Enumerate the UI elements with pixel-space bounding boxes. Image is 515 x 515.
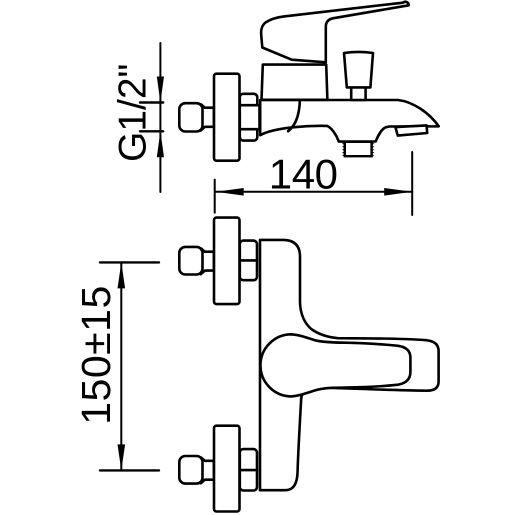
inner body/spout curve xyxy=(288,100,300,131)
nut upper (plan) xyxy=(240,241,257,281)
tick upper xyxy=(140,101,163,103)
neck upper (plan) xyxy=(201,248,214,274)
arrow right xyxy=(384,188,412,196)
thread teeth right xyxy=(371,142,375,156)
flange lower (plan) xyxy=(214,426,240,512)
diverter knob stem xyxy=(351,86,365,100)
wall connector neck (side view) xyxy=(201,104,214,130)
escutcheon flange (side view) xyxy=(214,74,240,161)
svg-text:140: 140 xyxy=(269,150,338,197)
eccentric lower (plan) xyxy=(179,456,202,484)
extension line left xyxy=(214,180,216,213)
lever handle (side view) xyxy=(261,2,409,62)
diverter knob xyxy=(344,52,373,88)
spout aerator box xyxy=(395,125,427,135)
lever handle (plan view) xyxy=(260,334,410,396)
tick lower xyxy=(140,130,163,132)
arrow down xyxy=(157,77,164,103)
eccentric connector (side view) xyxy=(179,103,202,131)
shower hose thread connector xyxy=(345,142,372,156)
dimension line 150 xyxy=(120,262,122,470)
thread teeth left xyxy=(342,142,346,156)
dimension line G1/2 xyxy=(159,43,161,192)
arrow up xyxy=(118,262,126,288)
tick lower xyxy=(100,469,159,471)
cartridge collar xyxy=(262,65,328,100)
svg-text:G1/2": G1/2" xyxy=(111,64,154,162)
dimension line 140 xyxy=(216,191,413,193)
arrow left xyxy=(216,188,244,196)
nut lower (plan) xyxy=(240,449,257,490)
flange upper (plan) xyxy=(214,218,240,305)
svg-text:150±15: 150±15 xyxy=(73,285,119,425)
arrow up xyxy=(157,131,164,157)
mixer body and spout (side view) xyxy=(260,100,439,142)
tick upper xyxy=(100,261,159,263)
nut middle band (side view) xyxy=(240,105,260,129)
arrow down xyxy=(118,444,126,470)
nut (side view) xyxy=(240,94,257,141)
eccentric upper (plan) xyxy=(179,247,202,275)
neck lower (plan) xyxy=(201,457,214,483)
mixer body (plan view) xyxy=(260,240,439,490)
extension line right xyxy=(411,152,413,215)
